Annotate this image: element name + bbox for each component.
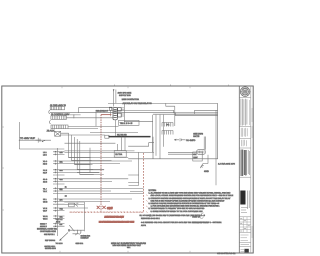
wire lower bus join bbox=[64, 202, 84, 229]
fuse F1 bbox=[36, 138, 42, 143]
terminal strip TB2 label bbox=[120, 122, 133, 125]
title block text rows mid bbox=[241, 208, 248, 213]
relay left label bbox=[97, 110, 108, 113]
svg-text:X2 D: X2 D bbox=[43, 163, 48, 166]
title block divider 2 bbox=[239, 147, 251, 149]
svg-text:6F3: 6F3 bbox=[60, 198, 63, 201]
switch box S1 bbox=[69, 203, 75, 207]
svg-text:CR2 FOR 5 SEC PICKUP AFTER CLO: CR2 FOR 5 SEC PICKUP AFTER CLOSURE OF MA… bbox=[151, 199, 226, 202]
caption sub bbox=[113, 244, 142, 249]
red scribble note bbox=[105, 216, 125, 219]
legend bottom row bbox=[192, 221, 221, 224]
title block divider 5 bbox=[239, 231, 251, 233]
svg-text:2: 2 bbox=[228, 83, 229, 86]
svg-text:GRD1 T: GRD1 T bbox=[40, 223, 47, 226]
title block logo divider bbox=[239, 96, 251, 98]
TB1 row 4 bbox=[43, 178, 128, 184]
revision note row 3 bbox=[141, 221, 209, 224]
main panel outline bbox=[128, 103, 217, 158]
relay K2 box bbox=[114, 151, 126, 158]
svg-text:K2 TDR: K2 TDR bbox=[115, 153, 122, 156]
svg-text:1.5 KVA 60HZ 1PH: 1.5 KVA 60HZ 1PH bbox=[218, 162, 236, 165]
wire number labels bbox=[60, 151, 63, 226]
row label 12 bbox=[65, 194, 67, 197]
title block black stamp bbox=[240, 191, 245, 205]
svg-text:AND LOCAL CODES. WIRE NUMBERS: AND LOCAL CODES. WIRE NUMBERS SHOWN ARE … bbox=[151, 194, 234, 197]
heavy bus TB row bbox=[109, 136, 151, 138]
wire bus top bbox=[108, 103, 218, 126]
TB1 row 9 bbox=[40, 223, 65, 229]
svg-text:5. TRANSFORMER T1 PRIMARY TAPS: 5. TRANSFORMER T1 PRIMARY TAPS SET AT 48… bbox=[149, 207, 206, 210]
wire feeder vertical bbox=[19, 122, 64, 149]
svg-text:SEE DWG: SEE DWG bbox=[193, 132, 203, 135]
red tick marks on boundary bbox=[71, 211, 141, 213]
notes row 3 bbox=[149, 197, 232, 200]
terminal block TB3 bbox=[105, 135, 109, 138]
wire relay bottom drop bbox=[114, 120, 116, 137]
wire left drops bbox=[65, 110, 119, 143]
svg-text:M1 (CR2) 1-7: M1 (CR2) 1-7 bbox=[97, 110, 108, 113]
title block dense rotated title text bbox=[241, 150, 246, 177]
connector J3 bbox=[51, 125, 68, 129]
svg-text:4. FOR OUTLINE AND MOUNTING SE: 4. FOR OUTLINE AND MOUNTING SEE DWG 36C7… bbox=[151, 205, 220, 208]
svg-text:2. CONTACTS SHOWN DE-ENERGIZED: 2. CONTACTS SHOWN DE-ENERGIZED WITH MACH… bbox=[149, 197, 232, 200]
wire double bus into receptacle bbox=[168, 152, 197, 154]
svg-text:CUSTOMER SIDE: CUSTOMER SIDE bbox=[40, 230, 56, 233]
title block divider 1 bbox=[239, 137, 251, 139]
svg-text:GE 36C751-AC-22: GE 36C751-AC-22 bbox=[217, 252, 236, 255]
TB1 row 1 bbox=[43, 151, 65, 157]
terminal column rail TB1 bbox=[57, 148, 59, 236]
svg-text:6. SPARE CONTACTS WIRED TO TB1: 6. SPARE CONTACTS WIRED TO TB1 FOR CUSTO… bbox=[151, 210, 204, 213]
wire bus L2 bbox=[50, 113, 218, 116]
bottom margin microfilm text bbox=[217, 252, 236, 255]
ground symbol GND1 bbox=[200, 155, 208, 168]
wire bus L1 bbox=[96, 110, 218, 112]
red note ticks bbox=[146, 195, 147, 213]
title block sheet number bold bbox=[241, 249, 249, 253]
svg-text:SEE NOTE 1: SEE NOTE 1 bbox=[44, 233, 55, 236]
svg-text:S2 H: S2 H bbox=[43, 180, 48, 183]
svg-text:J1 PWR 480V IN: J1 PWR 480V IN bbox=[50, 104, 66, 107]
title block approvals text rows bbox=[241, 235, 249, 241]
revision note row 1 bbox=[140, 214, 206, 217]
contact block K1a bbox=[118, 108, 122, 117]
reference drawings block bbox=[45, 239, 56, 250]
svg-text:SEE SH 2: SEE SH 2 bbox=[76, 242, 84, 245]
title block divider 1a bbox=[239, 126, 251, 128]
wire stubs right bbox=[128, 175, 143, 192]
arrow label bbox=[56, 242, 64, 245]
title block divider 4 bbox=[239, 216, 251, 218]
svg-text:MAIN CONTACTOR: MAIN CONTACTOR bbox=[122, 98, 140, 101]
svg-text:7G2: 7G2 bbox=[60, 207, 63, 210]
title block rotated text lines upper bbox=[241, 99, 250, 126]
svg-text:GND: GND bbox=[204, 170, 209, 173]
svg-text:2B1: 2B1 bbox=[60, 160, 63, 163]
border zone ticks bbox=[2, 86, 190, 253]
fuse F1 label bbox=[20, 137, 36, 140]
upper area text note 1 bbox=[118, 92, 133, 97]
long vertical right bbox=[215, 110, 217, 185]
svg-text:CM5: CM5 bbox=[107, 207, 113, 210]
svg-text:N1 N2 N3: N1 N2 N3 bbox=[117, 133, 127, 136]
terminal strip TB2 bbox=[119, 120, 140, 125]
svg-text:AUX RELAY CR2 TIME DELAY 5S: AUX RELAY CR2 TIME DELAY 5S bbox=[123, 102, 153, 105]
wire vertical drop center bbox=[129, 152, 139, 185]
connector J1 label bbox=[50, 104, 66, 107]
fuse F1 wire bbox=[20, 139, 52, 141]
svg-text:APPR: APPR bbox=[141, 224, 147, 227]
svg-text:EXTERNAL CONN TB1: EXTERNAL CONN TB1 bbox=[37, 228, 57, 231]
node A junction bbox=[19, 140, 20, 141]
wire panel top right bbox=[195, 110, 218, 114]
svg-text:4D2: 4D2 bbox=[60, 178, 63, 181]
notes row 8 bbox=[151, 210, 204, 213]
red bold revision row bbox=[99, 220, 134, 223]
right box text rows bbox=[193, 132, 203, 138]
heavy bus label bbox=[117, 133, 127, 136]
title block small section text bbox=[242, 140, 247, 147]
connector comb P5 bbox=[162, 131, 173, 135]
wire drops from bus into panel bbox=[153, 115, 164, 159]
net label text rows bbox=[56, 218, 62, 224]
title block divider 7 bbox=[239, 245, 251, 247]
revision note row 4 bbox=[141, 224, 147, 227]
TB1 row 7 bbox=[43, 207, 88, 213]
wire step-down staircase bbox=[69, 148, 129, 175]
wire bus A bbox=[78, 108, 113, 113]
svg-text:J3 AUX: J3 AUX bbox=[47, 129, 55, 132]
svg-text:36C752 SH 3: 36C752 SH 3 bbox=[45, 247, 56, 250]
svg-text:TO 480V SUP: TO 480V SUP bbox=[20, 137, 36, 140]
arrow tag near T1 bbox=[42, 140, 46, 142]
title block outline bbox=[239, 86, 251, 253]
svg-text:V1 N: V1 N bbox=[43, 207, 48, 210]
ground label bbox=[204, 170, 209, 173]
wire relay right bbox=[121, 103, 124, 122]
capacitor C1 label bbox=[186, 139, 196, 142]
revision note row 2 bbox=[141, 217, 160, 220]
connector J3 label bbox=[47, 129, 55, 132]
svg-text:PART OF: PART OF bbox=[192, 216, 201, 219]
connector J2 bbox=[50, 116, 67, 124]
title block divider 3 bbox=[239, 176, 251, 178]
TB1 row 8 bbox=[43, 215, 65, 221]
red X marks bbox=[97, 206, 106, 209]
capacitor C1 with arrow bbox=[174, 138, 186, 141]
svg-text:J2 CONTROL 120V: J2 CONTROL 120V bbox=[51, 113, 70, 116]
red CM5 text bbox=[107, 207, 113, 210]
transformer T1 bbox=[55, 131, 61, 136]
title block revision grid bbox=[239, 217, 251, 232]
TB1 row 2 bbox=[43, 160, 132, 166]
wire J2 stub bbox=[64, 114, 113, 118]
row label 11 bbox=[65, 186, 67, 189]
svg-text:5E1: 5E1 bbox=[60, 188, 63, 191]
TB1 row 5 bbox=[43, 187, 143, 193]
svg-text:U2 M: U2 M bbox=[43, 201, 48, 204]
svg-text:ASSEMBLY GROUP 1 - 36C751G1: ASSEMBLY GROUP 1 - 36C751G1 bbox=[192, 221, 221, 224]
red change line vertical bbox=[100, 115, 102, 212]
panel lower outline step bbox=[128, 143, 154, 147]
title block rotated text beside stamp bbox=[248, 191, 250, 210]
notes row 2 bbox=[151, 194, 234, 197]
connector J1 bbox=[49, 106, 65, 113]
svg-text:3C4: 3C4 bbox=[60, 169, 63, 172]
notes row 6 bbox=[151, 205, 220, 208]
relay K1 aux contact left bbox=[109, 107, 112, 116]
wire K2 drops bbox=[118, 137, 126, 151]
upper area text note 3 bbox=[123, 102, 153, 105]
wire row D bbox=[65, 204, 85, 206]
svg-text:CONTACT: CONTACT bbox=[81, 237, 89, 240]
spare note text bbox=[81, 234, 91, 239]
red dashed boundary horizontal bbox=[70, 211, 144, 213]
svg-text:9J4: 9J4 bbox=[60, 223, 63, 226]
svg-text:T1 J: T1 J bbox=[43, 187, 47, 190]
receptacle P6 bbox=[197, 137, 206, 155]
junction box JB1 text bbox=[193, 153, 198, 159]
arrow to feeder bbox=[59, 233, 68, 241]
wire horizontals upper-left of rows bbox=[65, 151, 155, 153]
caption main title bbox=[111, 242, 146, 245]
title block number row bbox=[241, 244, 250, 246]
TB1 bottom label bbox=[37, 228, 57, 236]
border zone marks bbox=[114, 83, 229, 86]
svg-text:JB1: JB1 bbox=[193, 153, 196, 156]
svg-text:1A2: 1A2 bbox=[60, 151, 63, 154]
connector comb P4 label bbox=[167, 124, 170, 127]
legend symbol row bbox=[192, 213, 203, 219]
relay K2 label bbox=[115, 153, 122, 156]
title block divider 6 bbox=[239, 241, 251, 243]
svg-text:3. REMOVE JUMPER WHEN REMOTE S: 3. REMOVE JUMPER WHEN REMOTE STATION IS … bbox=[149, 202, 220, 205]
wire relay to panel bbox=[124, 121, 153, 123]
svg-text:TO MCC: TO MCC bbox=[56, 242, 64, 245]
svg-text:8H1: 8H1 bbox=[60, 215, 63, 218]
connector J2 label bbox=[51, 113, 70, 116]
junction box JB1 bbox=[193, 152, 202, 161]
red dashed boundary vertical bbox=[142, 153, 144, 212]
svg-text:3: 3 bbox=[170, 83, 171, 86]
svg-text:4: 4 bbox=[114, 83, 115, 86]
riser wires from J3 bbox=[69, 133, 94, 174]
svg-text:X1 C: X1 C bbox=[43, 160, 48, 163]
connector comb P4 bbox=[162, 123, 173, 127]
sheet border frame bbox=[2, 86, 253, 253]
svg-text:REISSUED 10-12 SH 1: REISSUED 10-12 SH 1 bbox=[141, 217, 160, 220]
relay K1 bbox=[113, 108, 117, 120]
title block logo seal bbox=[240, 87, 250, 97]
svg-text:TB2 1 2 3 4 5: TB2 1 2 3 4 5 bbox=[120, 122, 133, 125]
svg-text:REF DWGS:: REF DWGS: bbox=[45, 239, 56, 242]
svg-text:SUPPLY BUS: SUPPLY BUS bbox=[119, 94, 131, 97]
svg-text:S1 G: S1 G bbox=[43, 178, 48, 181]
svg-text:1500 KW DIESEL ELECTRIC UNIT: 1500 KW DIESEL ELECTRIC UNIT bbox=[113, 244, 142, 247]
svg-text:NO FURTHER USE PER ECO 2489 CM: NO FURTHER USE PER ECO 2489 CM5 bbox=[99, 220, 134, 223]
svg-text:12: 12 bbox=[65, 194, 67, 197]
upper area text note 2 bbox=[122, 98, 140, 101]
svg-text:36C75: 36C75 bbox=[193, 135, 200, 138]
TB1 row 3 bbox=[43, 169, 104, 175]
wire bus mid bbox=[90, 131, 138, 133]
notes row 4 bbox=[151, 199, 226, 202]
notes row 1 bbox=[149, 192, 231, 195]
note text 1.5KVA bbox=[218, 162, 236, 165]
svg-text:1. ALL WIRING TO BE 14 AWG MIN: 1. ALL WIRING TO BE 14 AWG MIN TYPE SIS … bbox=[149, 192, 231, 195]
lower-left contact network bbox=[68, 225, 84, 235]
notes row 5 bbox=[149, 202, 220, 205]
svg-text:U1 L: U1 L bbox=[43, 198, 47, 201]
svg-text:W1 R: W1 R bbox=[43, 215, 48, 218]
svg-text:C1 4MFD: C1 4MFD bbox=[186, 139, 196, 142]
wire T1 to risers bbox=[61, 133, 105, 135]
RED MARKUP bbox=[70, 115, 144, 224]
notes row 7 bbox=[149, 207, 206, 210]
TB1 row 6 bbox=[43, 198, 132, 204]
title block rotated text lines second bbox=[241, 128, 247, 137]
red change line horizontal stub bbox=[101, 114, 111, 116]
last used text bbox=[76, 242, 84, 245]
right margin rotated text bbox=[251, 108, 253, 238]
switch symbol S2 bbox=[75, 203, 79, 206]
relay K1 vertical feed bbox=[113, 89, 116, 106]
svg-text:REWORK PER CM5: REWORK PER CM5 bbox=[105, 216, 125, 219]
notes header bbox=[149, 189, 157, 192]
